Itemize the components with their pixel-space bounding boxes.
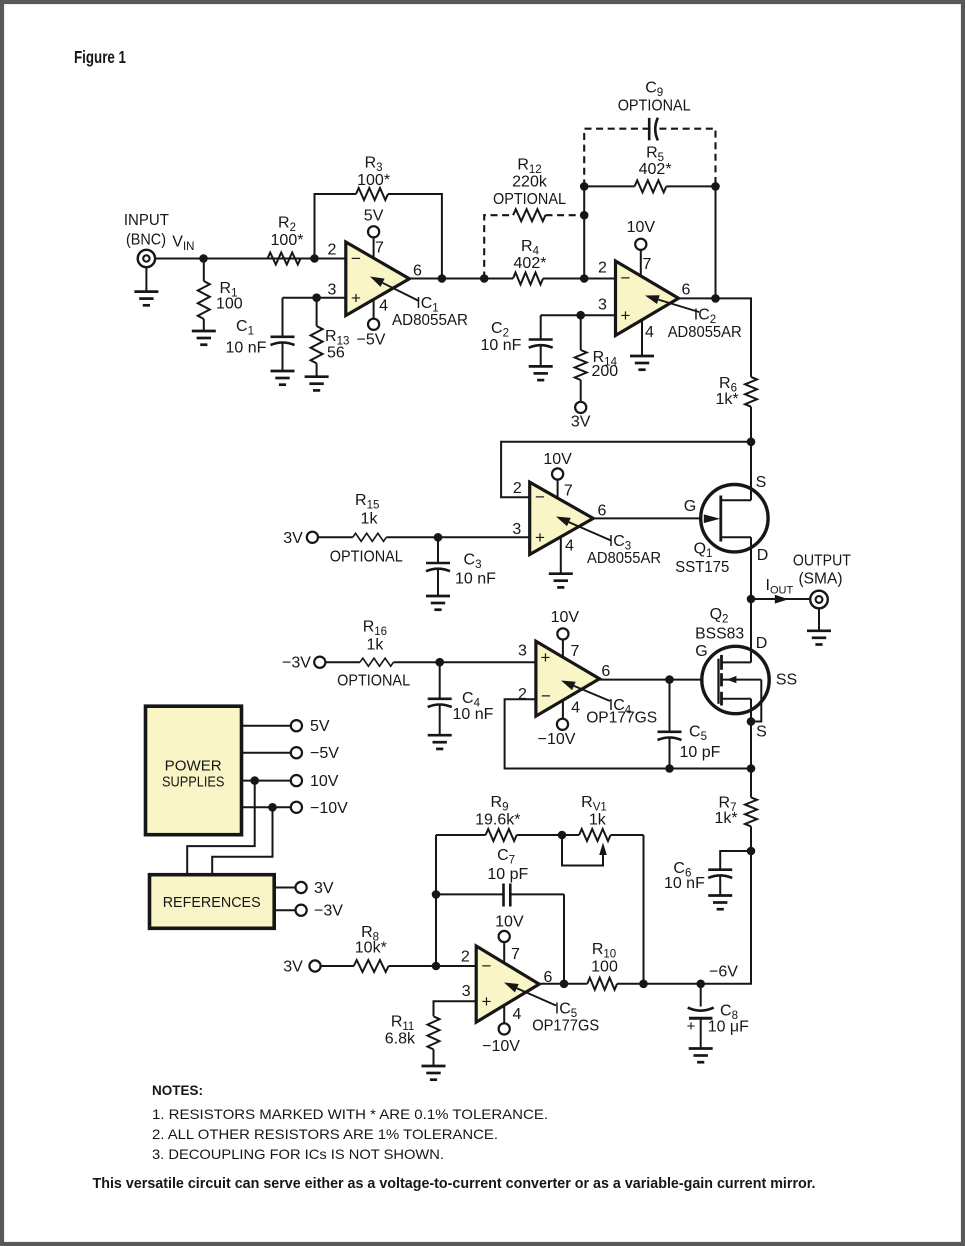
svg-text:5V: 5V — [364, 208, 384, 225]
svg-text:−3V: −3V — [314, 903, 343, 920]
svg-text:OPTIONAL: OPTIONAL — [330, 548, 403, 565]
node C pin3/R13 — [312, 293, 321, 302]
svg-text:7: 7 — [511, 946, 520, 963]
svg-text:D: D — [757, 547, 769, 564]
svg-text:3: 3 — [518, 643, 527, 660]
resistor R3 — [356, 188, 388, 200]
resistor R7 — [750, 769, 752, 798]
svg-text:OPTIONAL: OPTIONAL — [337, 673, 410, 690]
svg-text:−: − — [351, 249, 361, 268]
svg-text:4: 4 — [571, 700, 580, 717]
svg-text:4: 4 — [379, 298, 388, 315]
svg-text:2: 2 — [461, 949, 470, 966]
resistor R16 — [360, 658, 394, 666]
svg-text:OP177GS: OP177GS — [586, 710, 657, 727]
terminal 5V IC1 pin7 — [368, 226, 379, 237]
svg-text:1. RESISTORS MARKED WITH * ARE: 1. RESISTORS MARKED WITH * ARE 0.1% TOLE… — [152, 1106, 548, 1122]
wire 3V ref terminal — [274, 887, 296, 889]
pin 7 line IC2 — [640, 250, 642, 279]
capacitor C1 — [282, 298, 284, 337]
wire IC5 out — [539, 983, 587, 985]
wire -10V terminal — [242, 806, 292, 808]
node P C5 top — [665, 675, 674, 684]
resistor R10 — [587, 978, 617, 990]
wire R9 — [436, 834, 486, 836]
svg-text:−: − — [621, 269, 631, 288]
terminal -5V IC1 pin4 — [368, 319, 379, 330]
svg-text:10 nF: 10 nF — [481, 337, 522, 354]
svg-text:G: G — [695, 643, 707, 660]
wire R15 to IC3 pin3 — [318, 536, 353, 538]
node R Q2 source — [747, 717, 756, 726]
svg-text:2. ALL OTHER RESISTORS ARE 1%: 2. ALL OTHER RESISTORS ARE 1% TOLERANCE. — [152, 1126, 498, 1142]
node B R2/R3 junction — [310, 254, 319, 263]
wire IC2 pin3 — [541, 314, 616, 316]
wire dashed R12 right — [546, 214, 585, 216]
wire R5 right vertical — [715, 186, 717, 298]
svg-text:+: + — [621, 306, 631, 325]
svg-text:10k*: 10k* — [355, 940, 387, 957]
op-amp IC3 — [530, 482, 594, 554]
svg-text:402*: 402* — [514, 255, 547, 272]
terminal -10V IC5 pin4 — [499, 1023, 510, 1034]
wire IC1 out to IC2 pin2 — [409, 278, 513, 280]
svg-text:19.6k*: 19.6k* — [475, 812, 520, 829]
svg-text:S: S — [756, 724, 767, 741]
svg-text:10 nF: 10 nF — [664, 875, 705, 892]
wire IOUT — [751, 598, 810, 600]
svg-text:10 pF: 10 pF — [680, 744, 721, 761]
svg-text:+: + — [687, 1018, 696, 1035]
svg-text:2: 2 — [328, 242, 337, 259]
node A input/R1 — [199, 254, 208, 263]
capacitor C3 — [437, 537, 439, 563]
wire vertical R9 left — [435, 835, 437, 966]
Q1 drain stub — [721, 536, 751, 538]
svg-text:2: 2 — [513, 480, 522, 497]
wire IC2 out — [679, 298, 752, 377]
svg-text:402*: 402* — [639, 161, 672, 178]
Q2 substrate stub — [722, 679, 762, 681]
svg-text:1k: 1k — [366, 637, 384, 654]
wire IC4 feedback — [505, 699, 751, 768]
terminal 10V IC3 pin7 — [552, 468, 563, 479]
Q2 channel dashes — [720, 655, 723, 670]
svg-text:POWER: POWER — [165, 758, 222, 775]
node V C7 left — [432, 890, 441, 899]
resistor R5 — [584, 185, 634, 187]
node N IOUT — [747, 595, 756, 604]
svg-text:−10V: −10V — [482, 1038, 520, 1055]
resistor R6 — [745, 377, 757, 407]
node X IC5 out — [560, 980, 569, 989]
svg-text:4: 4 — [645, 324, 654, 341]
svg-text:1k: 1k — [361, 511, 379, 528]
svg-text:7: 7 — [643, 256, 652, 273]
svg-text:6.8k: 6.8k — [385, 1030, 416, 1047]
wire dashed C9 left — [584, 129, 649, 187]
terminal 3V R14 — [575, 402, 586, 413]
svg-text:10 nF: 10 nF — [226, 339, 267, 356]
svg-text:200: 200 — [591, 363, 618, 380]
ground at BNC — [145, 267, 147, 291]
terminal -3V R16 — [314, 657, 325, 668]
arrow IOUT — [775, 595, 789, 604]
resistor R15 — [353, 533, 387, 541]
node Q C5 bottom — [665, 764, 674, 773]
svg-text:10V: 10V — [310, 773, 339, 790]
resistor R13 — [316, 298, 318, 326]
pin 4 line IC1 — [373, 297, 375, 319]
node 10V tap — [250, 776, 259, 785]
svg-text:AD8055AR: AD8055AR — [668, 324, 742, 341]
svg-text:−: − — [541, 687, 551, 706]
wire dashed C9 right — [659, 129, 715, 187]
svg-text:−: − — [535, 488, 545, 507]
svg-text:1k*: 1k* — [714, 810, 737, 827]
svg-text:3V: 3V — [571, 414, 591, 431]
node -10V tap — [268, 803, 277, 812]
svg-text:100*: 100* — [357, 172, 390, 189]
Q2 substrate arrow — [727, 676, 737, 683]
svg-text:(SMA): (SMA) — [799, 571, 843, 588]
terminal 3V R15 — [307, 532, 318, 543]
wire Q2 S to bottom — [750, 722, 752, 769]
svg-text:−5V: −5V — [357, 332, 386, 349]
node U R8/IC5 — [432, 962, 441, 971]
terminal -10V — [291, 802, 302, 813]
svg-text:+: + — [482, 992, 492, 1011]
pin 7 line IC1 — [373, 237, 375, 262]
svg-text:7: 7 — [564, 482, 573, 499]
capacitor C2 — [540, 315, 542, 339]
svg-text:S: S — [756, 474, 767, 491]
transistor Q2 circle — [702, 646, 769, 713]
terminal -5V — [291, 747, 302, 758]
Q1 gate arrow — [704, 514, 720, 523]
wire 10V terminal — [242, 780, 292, 782]
svg-text:10 nF: 10 nF — [453, 706, 494, 723]
svg-text:3. DECOUPLING FOR ICs IS NOT S: 3. DECOUPLING FOR ICs IS NOT SHOWN. — [152, 1146, 444, 1162]
arrow IC5 label — [517, 988, 556, 1005]
capacitor C9 — [648, 118, 651, 140]
capacitor C7 — [436, 893, 504, 895]
resistor R12 — [513, 209, 545, 221]
resistor R14 — [580, 315, 582, 350]
svg-text:+: + — [541, 648, 551, 667]
svg-text:4: 4 — [512, 1006, 521, 1023]
node F R4/IC2 pin2 — [580, 274, 589, 283]
node Y RV1 bottom — [639, 980, 648, 989]
op-amp IC1 — [346, 242, 410, 316]
terminal 3V R8 — [309, 960, 320, 971]
svg-text:−3V: −3V — [282, 655, 311, 672]
resistor R8 — [354, 960, 389, 972]
ground at R1 — [192, 330, 216, 333]
Q2 drain stub — [722, 661, 751, 663]
svg-text:1k: 1k — [589, 812, 607, 829]
resistor R9 — [486, 829, 517, 841]
capacitor C4 — [439, 662, 441, 699]
Q2 source stub — [722, 698, 751, 700]
wire R16 to IC4 pin3 — [325, 661, 360, 663]
Q2 gate bar — [717, 659, 719, 704]
node D IC1 out — [438, 274, 447, 283]
svg-text:SS: SS — [776, 672, 797, 689]
svg-text:220k: 220k — [512, 173, 548, 190]
connector OUTPUT SMA — [810, 591, 828, 609]
terminal 3V ref — [296, 882, 307, 893]
svg-text:3: 3 — [328, 282, 337, 299]
pin 4 line IC2 — [641, 318, 643, 356]
wire input to IC1 pin2 — [155, 258, 346, 260]
node M C3 tap — [434, 533, 443, 542]
svg-text:100: 100 — [591, 959, 618, 976]
terminal 10V IC4 pin7 — [557, 628, 568, 639]
svg-text:INPUT: INPUT — [124, 212, 169, 229]
wire IC4 out to Q2 gate — [598, 679, 718, 681]
op-amp IC4 — [536, 641, 600, 716]
node K IC2 out/R5 — [711, 294, 720, 303]
wire 10V to references — [187, 781, 255, 875]
svg-text:10 μF: 10 μF — [708, 1019, 749, 1036]
svg-text:This versatile circuit can ser: This versatile circuit can serve either … — [93, 1176, 816, 1192]
svg-text:−: − — [482, 957, 492, 976]
svg-text:OPTIONAL: OPTIONAL — [493, 191, 566, 208]
node G R12/vertical — [580, 211, 589, 220]
node H R5 left — [580, 182, 589, 191]
svg-text:6: 6 — [601, 663, 610, 680]
wire R5 left vertical — [583, 186, 585, 278]
svg-text:SUPPLIES: SUPPLIES — [162, 774, 225, 791]
Q1 source stub — [721, 499, 751, 501]
wire -5V terminal — [242, 752, 292, 754]
svg-text:OPTIONAL: OPTIONAL — [618, 97, 691, 114]
wire 5V terminal — [242, 725, 292, 727]
svg-text:+: + — [351, 289, 361, 308]
pin 4 line IC4 — [562, 701, 564, 719]
svg-text:NOTES:: NOTES: — [152, 1082, 203, 1098]
svg-text:100*: 100* — [271, 232, 304, 249]
svg-text:6: 6 — [413, 263, 422, 280]
wire RV1 right vertical — [643, 835, 645, 984]
terminal -10V IC4 pin4 — [557, 719, 568, 730]
wire IC3 out to Q1 gate — [593, 517, 719, 519]
terminal 5V — [291, 720, 302, 731]
resistor RV1 — [579, 829, 611, 841]
svg-text:56: 56 — [327, 345, 345, 362]
capacitor C6 — [720, 851, 751, 870]
terminal 10V — [291, 775, 302, 786]
svg-text:AD8055AR: AD8055AR — [392, 312, 468, 329]
svg-text:2: 2 — [598, 259, 607, 276]
pin 7 line IC5 — [503, 942, 505, 966]
block POWER SUPPLIES — [146, 706, 242, 835]
svg-text:4: 4 — [565, 538, 574, 555]
svg-text:3V: 3V — [283, 959, 303, 976]
resistor R2 — [268, 253, 301, 265]
block REFERENCES — [150, 875, 275, 929]
svg-text:100: 100 — [216, 296, 243, 313]
op-amp IC5 — [476, 946, 539, 1022]
node J pin3/R14 — [576, 311, 585, 320]
svg-text:1k*: 1k* — [715, 391, 738, 408]
svg-text:3: 3 — [512, 521, 521, 538]
node E R12 tap — [480, 274, 489, 283]
svg-text:10V: 10V — [543, 451, 572, 468]
terminal -3V ref — [296, 905, 307, 916]
transistor Q1 circle — [701, 485, 768, 552]
Q1 channel bar — [719, 496, 722, 542]
svg-text:−10V: −10V — [538, 731, 576, 748]
svg-text:AD8055AR: AD8055AR — [587, 550, 661, 567]
wire -10V to references — [212, 807, 272, 874]
arrow IC4 label — [574, 686, 610, 701]
svg-text:3V: 3V — [314, 880, 334, 897]
svg-text:3: 3 — [462, 983, 471, 1000]
capacitor C5 — [669, 680, 671, 732]
terminal 10V IC5 pin7 — [499, 931, 510, 942]
pin 4 line IC3 — [560, 535, 562, 574]
svg-text:7: 7 — [375, 240, 384, 257]
svg-text:2: 2 — [518, 686, 527, 703]
svg-text:REFERENCES: REFERENCES — [163, 894, 261, 911]
wire -3V ref terminal — [274, 909, 296, 911]
resistor R4 — [513, 273, 543, 285]
svg-text:−10V: −10V — [310, 800, 348, 817]
svg-text:10 pF: 10 pF — [487, 866, 528, 883]
arrow IC1 label — [383, 283, 420, 301]
svg-text:Figure 1: Figure 1 — [74, 47, 126, 67]
svg-text:(BNC): (BNC) — [126, 232, 166, 249]
node O C4 tap — [435, 658, 444, 667]
wire dashed R12 left — [484, 215, 513, 278]
pin 7 line IC3 — [557, 479, 559, 501]
resistor R11 — [428, 1016, 440, 1049]
RV1 wiper — [562, 835, 603, 866]
svg-text:6: 6 — [682, 281, 691, 298]
svg-text:−6V: −6V — [709, 964, 738, 981]
svg-text:6: 6 — [597, 503, 606, 520]
capacitor C8 — [700, 984, 702, 1007]
resistor R1 — [203, 259, 205, 282]
svg-text:OP177GS: OP177GS — [532, 1018, 599, 1035]
node W R9/RV1 — [558, 831, 567, 840]
pin 4 line IC5 — [503, 1003, 505, 1024]
wire R3 feedback — [315, 194, 357, 259]
svg-text:5V: 5V — [310, 718, 330, 735]
svg-text:10V: 10V — [495, 913, 524, 930]
svg-text:G: G — [684, 498, 696, 515]
svg-text:10V: 10V — [551, 609, 580, 626]
node I R5 right — [711, 182, 720, 191]
terminal 10V IC2 pin7 — [635, 239, 646, 250]
connector J1 INPUT BNC — [138, 250, 155, 267]
node T R7 bottom — [747, 847, 756, 856]
svg-text:BSS83: BSS83 — [695, 625, 744, 642]
wire IC3 feedback — [501, 442, 751, 497]
wire IC5 pin3 to R11 — [434, 1001, 477, 1016]
wire R8 to IC5 pin2 — [320, 965, 354, 967]
svg-text:10 nF: 10 nF — [455, 571, 496, 588]
svg-text:−5V: −5V — [310, 745, 339, 762]
wire R10 to -6V — [617, 983, 701, 985]
node L R6 bottom — [747, 438, 756, 447]
svg-text:SST175: SST175 — [675, 559, 729, 576]
wire IC1 pin3 — [283, 297, 346, 299]
svg-text:10V: 10V — [627, 219, 656, 236]
arrow IC3 label — [569, 522, 611, 540]
svg-text:D: D — [756, 635, 768, 652]
op-amp IC2 — [616, 261, 679, 336]
svg-text:3: 3 — [598, 297, 607, 314]
svg-text:+: + — [535, 528, 545, 547]
node Z -6V — [696, 980, 705, 989]
pin 7 line IC4 — [562, 639, 564, 661]
svg-text:3V: 3V — [283, 530, 303, 547]
svg-text:7: 7 — [571, 643, 580, 660]
ground IC3 pin4 — [549, 572, 573, 575]
svg-text:OUTPUT: OUTPUT — [793, 553, 851, 570]
node S bottom junction — [747, 764, 756, 773]
ground IC2 pin4 — [630, 355, 654, 358]
arrow IC2 label — [658, 300, 699, 312]
wire R7 node down — [701, 851, 751, 984]
ground at SMA — [818, 609, 820, 631]
